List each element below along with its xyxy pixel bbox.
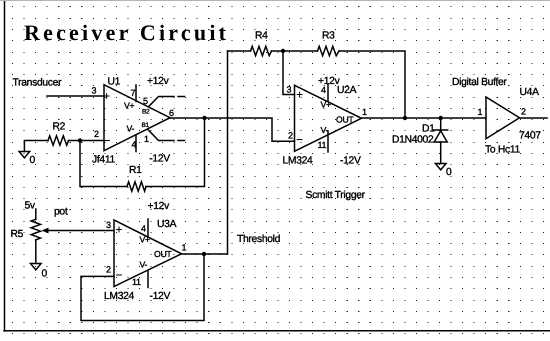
svg-text:0: 0: [446, 167, 452, 178]
U1 pin4 stub: [135, 135, 137, 152]
ground left (R2): [19, 152, 30, 158]
wire U3A out to threshold: [182, 253, 228, 255]
svg-text:V-: V-: [127, 124, 135, 134]
resistor R2: [48, 136, 69, 145]
svg-text:LM324: LM324: [104, 291, 135, 302]
svg-text:R1: R1: [129, 165, 142, 176]
svg-text:OUT: OUT: [154, 249, 172, 259]
node junction R2/R1/pin2: [78, 138, 82, 142]
op-amp U2A triangle: [295, 85, 362, 151]
svg-text:3: 3: [106, 220, 111, 230]
wire junction to U2A pin3: [283, 51, 295, 95]
U3A plus marker: [117, 227, 122, 232]
svg-text:2: 2: [106, 265, 111, 275]
wire R2 to U1 pin2: [69, 140, 105, 142]
svg-text:V+: V+: [321, 100, 331, 110]
svg-text:-12V: -12V: [150, 291, 171, 302]
resistor R4: [251, 46, 272, 55]
svg-text:OUT: OUT: [336, 115, 354, 125]
svg-text:1: 1: [182, 243, 187, 253]
U2A pin11 stub: [327, 131, 329, 152]
svg-text:3: 3: [287, 85, 292, 95]
svg-text:7: 7: [131, 88, 136, 98]
svg-text:0: 0: [42, 269, 48, 280]
svg-text:Digital Buffer: Digital Buffer: [452, 77, 507, 88]
U1 plus marker: [104, 94, 109, 99]
node U1 output junction: [202, 116, 206, 120]
svg-text:-12V: -12V: [340, 156, 361, 167]
svg-text:0: 0: [30, 155, 36, 166]
svg-text:1: 1: [478, 107, 483, 117]
wire R4 to R3: [272, 50, 318, 52]
wire U2A output rail to U4A input: [362, 117, 486, 119]
svg-text:2: 2: [94, 129, 99, 139]
svg-text:+12v: +12v: [148, 201, 171, 212]
svg-text:U1: U1: [108, 77, 121, 88]
svg-text:4: 4: [132, 140, 137, 150]
U1 pin5 stub: [149, 97, 175, 107]
svg-text:7407: 7407: [519, 131, 541, 142]
U3A minus marker: [117, 274, 122, 276]
svg-text:To Hc11: To Hc11: [485, 145, 520, 156]
svg-text:2: 2: [521, 107, 526, 117]
svg-text:+12v: +12v: [147, 76, 170, 87]
svg-text:LM324: LM324: [283, 156, 314, 167]
svg-text:-12V: -12V: [149, 154, 170, 165]
wire D1 stem top: [440, 118, 442, 130]
svg-text:11: 11: [318, 140, 327, 150]
U3A pin4 stub: [147, 219, 149, 237]
node R4/R3 junction: [281, 49, 285, 53]
wire transducer input to U1 pin3: [47, 95, 104, 97]
svg-text:D1: D1: [422, 124, 435, 135]
svg-text:U2A: U2A: [337, 85, 357, 96]
U1 pin1 stub: [148, 130, 174, 141]
wire R3 to output node: [339, 51, 405, 118]
svg-text:R5: R5: [11, 229, 24, 240]
diode D1: [434, 130, 448, 164]
svg-text:R3: R3: [322, 31, 335, 42]
svg-text:1: 1: [362, 107, 367, 117]
svg-text:4: 4: [321, 85, 326, 95]
svg-text:V-: V-: [321, 125, 329, 135]
svg-text:B1: B1: [142, 122, 150, 129]
U1 pin7 stub: [135, 85, 137, 102]
U2A minus marker: [297, 139, 302, 141]
ground under D1: [435, 164, 446, 170]
resistor R1: [127, 182, 146, 191]
wire R1 to output node: [146, 118, 205, 187]
svg-text:U4A: U4A: [520, 87, 540, 98]
svg-text:3: 3: [92, 86, 97, 96]
node D1 junction: [439, 116, 443, 120]
svg-text:4: 4: [141, 224, 146, 234]
svg-text:Jf411: Jf411: [92, 155, 115, 166]
op-amp U3A triangle: [114, 220, 182, 287]
U3A pin11 stub: [147, 271, 149, 288]
svg-text:D1N4002: D1N4002: [392, 135, 434, 146]
svg-text:pot: pot: [54, 207, 68, 218]
wire U3A feedback loop: [81, 254, 204, 321]
pot wiper arrow: [46, 230, 114, 232]
op-amp U1 triangle: [104, 85, 170, 151]
ground under pot: [31, 264, 42, 270]
svg-text:Scmitt Trigger: Scmitt Trigger: [306, 190, 366, 201]
resistor R3: [318, 46, 340, 55]
svg-text:R4: R4: [255, 31, 268, 42]
wire threshold vertical: [227, 51, 229, 254]
U2A pin4 stub: [327, 85, 329, 102]
wire U1 output to U2A pin2: [170, 118, 295, 141]
svg-text:5v: 5v: [25, 201, 36, 212]
svg-text:2: 2: [288, 131, 293, 141]
svg-text:5: 5: [143, 96, 148, 106]
node U3A output junction: [202, 252, 206, 256]
svg-text:Threshold: Threshold: [237, 234, 281, 245]
svg-text:11: 11: [132, 277, 141, 287]
svg-text:B2: B2: [142, 109, 150, 116]
wire U4A output: [520, 117, 548, 119]
U1 minus marker: [105, 140, 110, 142]
wire ground stub left: [24, 141, 48, 152]
wire top rail left: [228, 50, 251, 52]
svg-text:V-: V-: [140, 260, 148, 270]
svg-text:6: 6: [169, 108, 174, 118]
svg-text:R2: R2: [53, 122, 66, 133]
potentiometer R5: [31, 209, 40, 264]
node R3/output junction: [403, 116, 407, 120]
U2A plus marker: [297, 92, 302, 97]
svg-text:1: 1: [144, 134, 149, 144]
svg-text:V+: V+: [124, 101, 134, 111]
buffer U4A triangle: [486, 97, 520, 139]
svg-text:Transducer: Transducer: [13, 78, 63, 89]
svg-text:V+: V+: [140, 235, 150, 245]
svg-text:U3A: U3A: [157, 219, 177, 230]
wire R1 branch down: [80, 141, 127, 187]
